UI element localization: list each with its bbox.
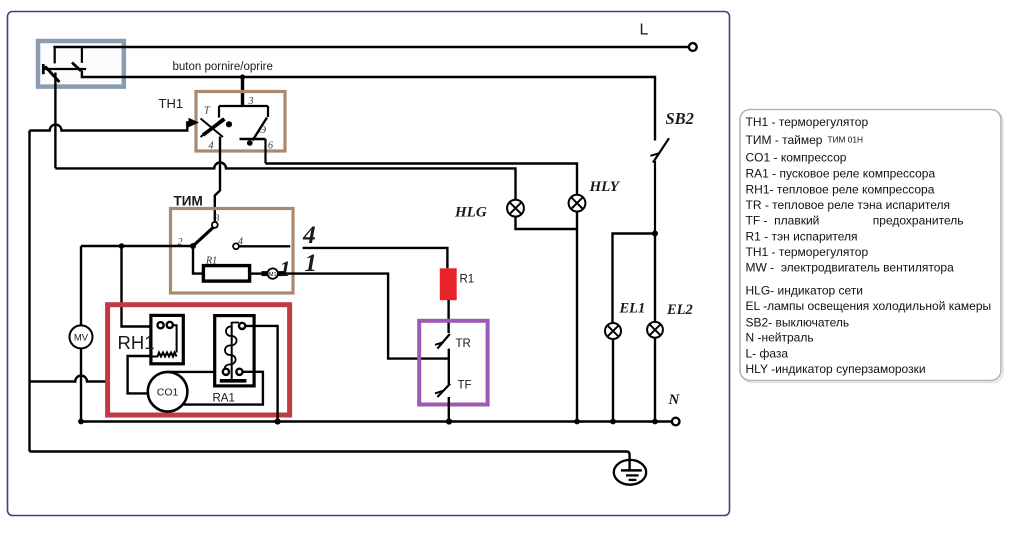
junction EL1 rail bbox=[610, 419, 616, 425]
wire: pin2 to R1 bbox=[193, 246, 203, 274]
lamp HLY bbox=[569, 195, 586, 212]
svg-text:N: N bbox=[668, 392, 681, 408]
lamp EL1 bbox=[605, 323, 621, 339]
wire: HLG line with hop bbox=[55, 73, 515, 200]
svg-text:buton pornire/oprire: buton pornire/oprire bbox=[173, 61, 273, 73]
wire: RA1 pin to CO1 bottom bbox=[183, 372, 263, 405]
timer pin 3 bbox=[212, 222, 218, 228]
junction RA1 rail bbox=[275, 418, 281, 424]
wire: TH1 pin4 down to timer bbox=[215, 137, 220, 222]
svg-text:ТИМ - таймер: ТИМ - таймер bbox=[746, 133, 823, 147]
defrost protection box bbox=[419, 321, 487, 405]
arrow into TH1 bbox=[189, 118, 200, 127]
svg-text:MV: MV bbox=[74, 333, 89, 344]
wire: ground line bbox=[30, 452, 630, 471]
wire: EL2 down bbox=[654, 234, 656, 322]
start relay compartment box bbox=[108, 305, 290, 415]
schematic frame bbox=[8, 12, 730, 516]
wire: TF to rail bbox=[448, 397, 450, 422]
junction timer pin2 bbox=[190, 243, 196, 249]
start relay RA1 bbox=[215, 316, 254, 386]
junction relay feed bbox=[119, 243, 125, 249]
wire: TR-TF bbox=[448, 349, 450, 385]
resistor R1 heater bbox=[440, 268, 457, 300]
wire: TH1 pin6 to HLY bbox=[266, 164, 578, 195]
wire: RA1 top pin to rail bbox=[245, 326, 277, 422]
thermal relay RH1 bbox=[151, 315, 183, 363]
svg-text:3: 3 bbox=[248, 96, 254, 107]
svg-text:SB2- выключатель: SB2- выключатель bbox=[746, 316, 850, 330]
junction HLY rail bbox=[574, 419, 580, 425]
thermostat TH1 box bbox=[196, 92, 285, 152]
svg-text:L- фаза: L- фаза bbox=[746, 347, 789, 361]
svg-text:R1 - тэн испарителя: R1 - тэн испарителя bbox=[746, 230, 858, 244]
svg-text:RH1- тепловое реле компрессора: RH1- тепловое реле компрессора bbox=[746, 183, 935, 197]
wire: EL2 to rail bbox=[654, 338, 656, 422]
wire: CO1 top to RA1 bbox=[168, 371, 223, 373]
legend box bbox=[742, 112, 1003, 383]
wire: HLG-HLY link bbox=[516, 217, 578, 229]
wire: RH1 to CO1 bbox=[128, 356, 151, 393]
wire: pin2 feed bbox=[81, 245, 193, 247]
wire: R1 to motor bbox=[250, 272, 262, 274]
svg-text:EL2: EL2 bbox=[666, 302, 693, 318]
compressor CO1 bbox=[148, 372, 188, 412]
wire: L top line bbox=[53, 46, 688, 48]
svg-text:TR: TR bbox=[456, 338, 471, 350]
svg-text:ТИМ 01Н: ТИМ 01Н bbox=[828, 135, 863, 145]
wire: pin4 out bbox=[239, 245, 290, 247]
fan motor MV bbox=[70, 325, 93, 348]
wire: line 1 to defrost bbox=[284, 274, 449, 359]
svg-text:TF - плавкий: TF - плавкий bbox=[746, 214, 820, 228]
fuse TF bbox=[435, 384, 450, 397]
wire: R1 to TR bbox=[447, 300, 449, 333]
power switch box SA bbox=[38, 41, 124, 87]
wire: feed to RH1 bbox=[122, 246, 158, 327]
svg-text:TH1 - терморегулятор: TH1 - терморегулятор bbox=[746, 115, 869, 129]
wire: T-feed with hop bbox=[30, 123, 191, 131]
legend text bbox=[746, 115, 992, 376]
TH1 pin labels bbox=[204, 96, 273, 152]
timer pin 4 bbox=[233, 243, 239, 249]
fan motor MV wire bbox=[80, 246, 82, 325]
junction MV rail bbox=[78, 419, 84, 425]
svg-text:HLG: HLG bbox=[454, 205, 487, 221]
svg-text:4: 4 bbox=[209, 141, 214, 152]
svg-text:3: 3 bbox=[214, 214, 220, 225]
svg-text:CO1 - компрессор: CO1 - компрессор bbox=[746, 151, 847, 165]
terminal N bbox=[672, 418, 680, 426]
junction SB2 bottom bbox=[652, 231, 658, 237]
timer TIM box bbox=[171, 209, 294, 294]
svg-text:Э: Э bbox=[260, 125, 267, 136]
svg-text:1: 1 bbox=[280, 256, 291, 281]
svg-text:6: 6 bbox=[268, 141, 273, 152]
svg-text:MW - электродвигатель вентиля: MW - электродвигатель вентилятора bbox=[746, 261, 955, 275]
svg-text:TF: TF bbox=[458, 380, 472, 392]
wire: left rail to relay box with hop bbox=[30, 376, 108, 382]
junction TF rail bbox=[446, 418, 452, 424]
wire: TH1 riser pin3 bbox=[241, 77, 244, 106]
contact TR bbox=[435, 334, 450, 349]
thermostat TH1 contacts bbox=[201, 106, 269, 164]
wire: left rail bbox=[28, 131, 30, 452]
svg-text:EL1: EL1 bbox=[619, 301, 646, 317]
switch SB2 bbox=[651, 138, 670, 233]
power switch contacts bbox=[43, 47, 86, 82]
svg-text:HLY -индикатор суперзаморозки: HLY -индикатор суперзаморозки bbox=[746, 362, 926, 376]
wire: EL1 branch bbox=[613, 234, 656, 323]
wire: EL1 down bbox=[612, 339, 614, 422]
svg-text:CO1: CO1 bbox=[157, 387, 179, 399]
svg-text:SB2: SB2 bbox=[666, 109, 694, 128]
resistor R1 timer bbox=[203, 266, 249, 282]
svg-text:RA1: RA1 bbox=[213, 393, 235, 405]
svg-text:RA1 - пусковое реле компрессор: RA1 - пусковое реле компрессора bbox=[746, 167, 936, 181]
ground symbol bbox=[614, 460, 646, 485]
svg-text:L: L bbox=[640, 22, 649, 39]
svg-text:ТИМ: ТИМ bbox=[174, 194, 203, 209]
svg-text:EL -лампы освещения холодильно: EL -лампы освещения холодильной камеры bbox=[746, 299, 992, 313]
timer lever bbox=[193, 227, 213, 246]
svg-text:RH1: RH1 bbox=[118, 332, 155, 353]
svg-text:TH1: TH1 bbox=[159, 96, 184, 111]
svg-text:HLY: HLY bbox=[589, 179, 621, 195]
svg-text:M1: M1 bbox=[269, 272, 277, 278]
wire: HLY down to rail bbox=[576, 212, 578, 422]
wire: MV to rail bbox=[80, 348, 82, 421]
svg-text:N -нейтраль: N -нейтраль bbox=[746, 331, 814, 345]
lamp HLG bbox=[507, 200, 524, 217]
wire: buton pornire line to SB2 bbox=[82, 71, 655, 141]
svg-text:предохранитель: предохранитель bbox=[873, 214, 964, 228]
svg-text:TR - тепловое реле тэна испари: TR - тепловое реле тэна испарителя bbox=[746, 198, 951, 212]
junction EL2 rail bbox=[652, 419, 658, 425]
wire: line 4 to R1 heater bbox=[303, 248, 448, 268]
wire: neutral rail bbox=[81, 420, 672, 422]
terminal L bbox=[689, 43, 697, 51]
svg-text:R1: R1 bbox=[460, 274, 475, 286]
timer motor M1 bbox=[262, 268, 284, 278]
lamp EL2 bbox=[647, 322, 663, 338]
junction TH1 riser bbox=[240, 74, 245, 79]
timer pin labels bbox=[178, 214, 244, 267]
svg-text:4: 4 bbox=[302, 220, 316, 249]
svg-text:TH1 - терморегулятор: TH1 - терморегулятор bbox=[746, 245, 869, 259]
svg-text:HLG- индикатор сети: HLG- индикатор сети bbox=[746, 284, 863, 298]
